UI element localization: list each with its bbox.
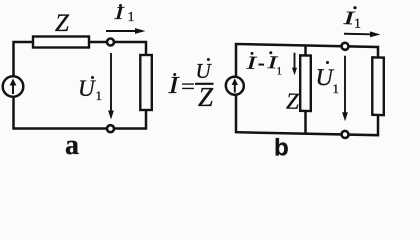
svg-text:1: 1 (96, 88, 103, 103)
svg-text:U: U (78, 76, 96, 101)
svg-text:1: 1 (128, 10, 135, 25)
svg-text:I: I (245, 54, 257, 74)
svg-text:1: 1 (333, 81, 339, 96)
svg-text:1: 1 (354, 17, 361, 32)
svg-text:I: I (167, 73, 180, 99)
svg-text:=: = (181, 74, 195, 98)
svg-text:a: a (65, 130, 79, 160)
svg-text:Z: Z (55, 10, 70, 37)
svg-text:Z: Z (286, 89, 299, 114)
svg-text:b: b (274, 135, 289, 161)
svg-text:U: U (196, 59, 213, 83)
svg-text:Z: Z (198, 82, 214, 112)
svg-text:1: 1 (277, 65, 282, 77)
svg-text:I: I (113, 3, 125, 23)
